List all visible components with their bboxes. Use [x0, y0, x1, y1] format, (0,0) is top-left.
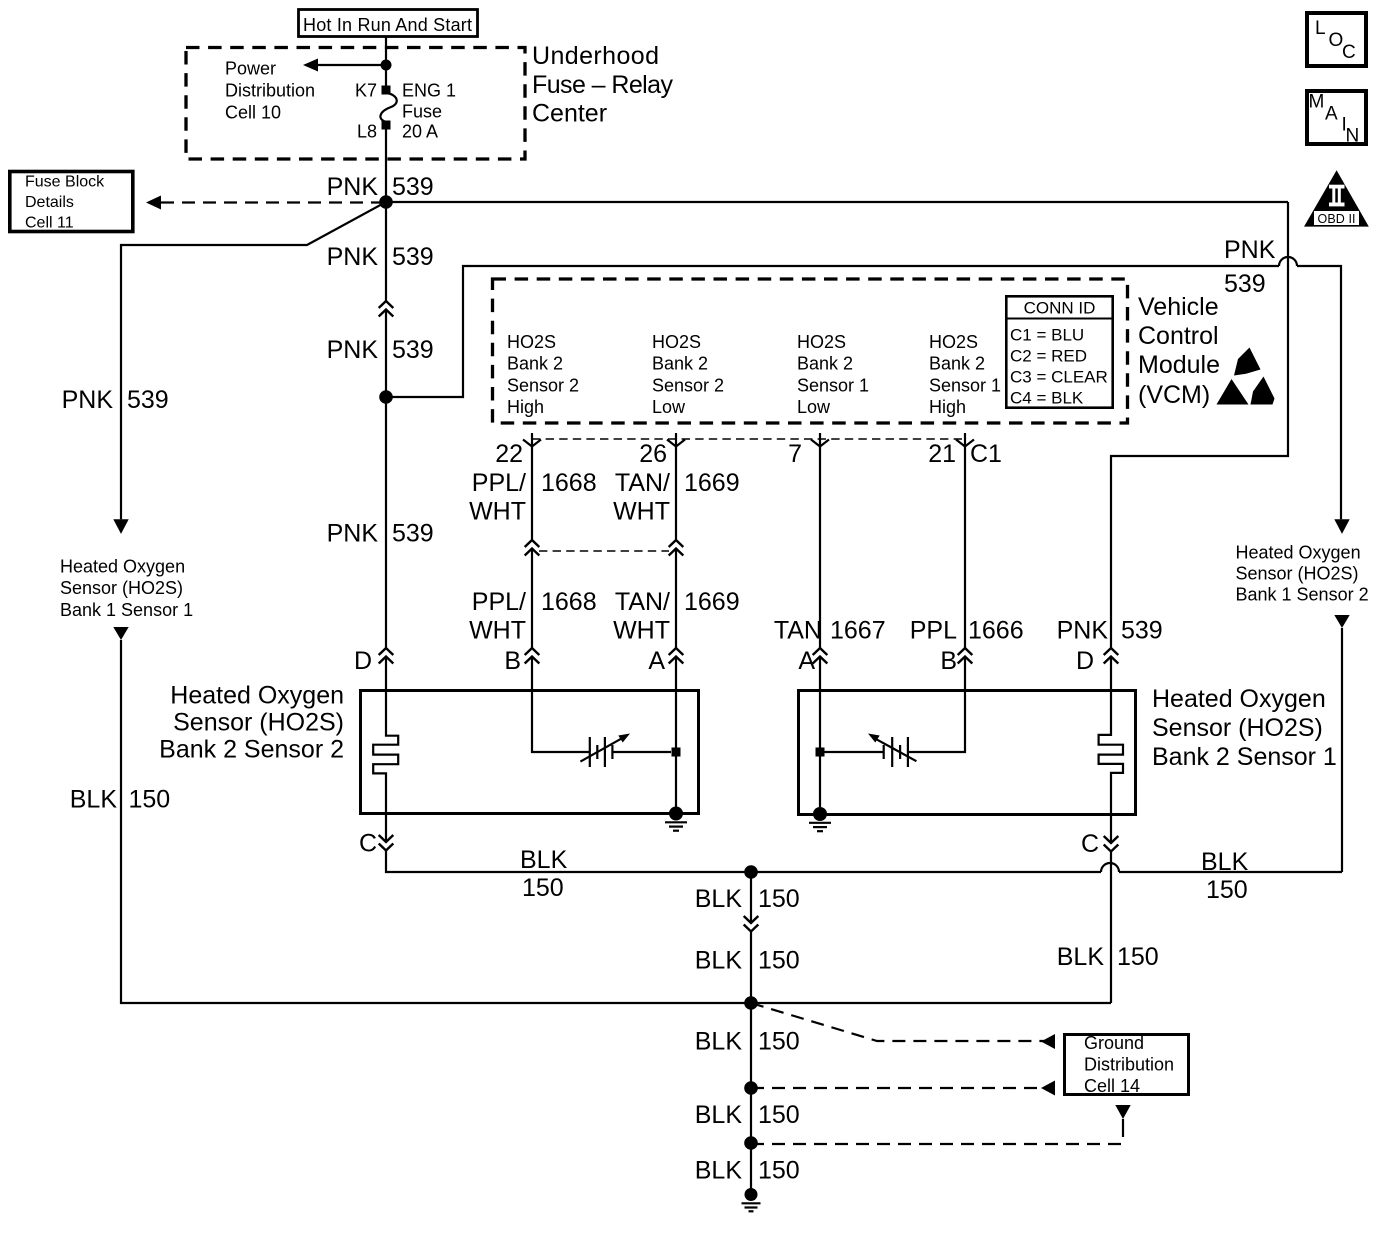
svg-text:1668: 1668 [541, 469, 597, 497]
svg-text:D: D [354, 647, 372, 675]
svg-text:539: 539 [392, 520, 434, 548]
svg-text:Fuse – Relay: Fuse – Relay [532, 71, 674, 99]
svg-text:WHT: WHT [613, 498, 670, 526]
svg-text:1668: 1668 [541, 588, 597, 616]
svg-text:Bank 2: Bank 2 [507, 354, 563, 374]
svg-text:ENG 1: ENG 1 [402, 81, 456, 101]
svg-text:C3 = CLEAR: C3 = CLEAR [1010, 368, 1108, 387]
svg-text:539: 539 [127, 386, 169, 414]
svg-text:WHT: WHT [613, 617, 670, 645]
svg-text:High: High [929, 397, 966, 417]
svg-text:HO2S: HO2S [797, 332, 846, 352]
svg-text:Heated Oxygen: Heated Oxygen [1152, 685, 1326, 713]
svg-text:539: 539 [392, 336, 434, 364]
svg-text:A: A [798, 647, 815, 675]
svg-text:PNK: PNK [327, 243, 379, 271]
svg-text:Bank 2: Bank 2 [652, 354, 708, 374]
svg-text:Module: Module [1138, 351, 1220, 379]
svg-text:PNK: PNK [327, 173, 379, 201]
svg-text:539: 539 [392, 243, 434, 271]
svg-text:Center: Center [532, 100, 607, 128]
svg-text:Low: Low [797, 397, 831, 417]
svg-text:20 A: 20 A [402, 122, 438, 142]
svg-text:L: L [1315, 18, 1326, 39]
svg-text:C: C [1081, 830, 1099, 858]
svg-text:PNK: PNK [62, 386, 114, 414]
svg-text:PNK: PNK [327, 336, 379, 364]
svg-text:Ground: Ground [1084, 1033, 1144, 1053]
svg-text:Distribution: Distribution [225, 81, 315, 101]
svg-text:150: 150 [758, 947, 800, 975]
svg-text:Bank 2: Bank 2 [929, 354, 985, 374]
svg-text:Sensor 1: Sensor 1 [929, 375, 1001, 395]
svg-text:21: 21 [928, 440, 956, 468]
svg-text:N: N [1346, 126, 1360, 147]
svg-text:Bank 1 Sensor 1: Bank 1 Sensor 1 [60, 600, 193, 620]
svg-text:BLK: BLK [695, 1101, 743, 1129]
svg-text:150: 150 [522, 874, 564, 902]
svg-text:C2 = RED: C2 = RED [1010, 347, 1087, 366]
svg-text:Sensor 2: Sensor 2 [652, 375, 724, 395]
svg-text:B: B [940, 647, 957, 675]
svg-text:Fuse: Fuse [402, 102, 442, 122]
svg-text:L8: L8 [357, 122, 377, 142]
svg-text:539: 539 [392, 173, 434, 201]
svg-text:BLK: BLK [695, 1028, 743, 1056]
svg-text:CONN ID: CONN ID [1024, 299, 1096, 318]
svg-text:TAN: TAN [774, 617, 822, 645]
svg-text:BLK: BLK [1057, 943, 1105, 971]
svg-text:Bank 2: Bank 2 [797, 354, 853, 374]
svg-text:1669: 1669 [684, 588, 740, 616]
svg-text:A: A [1325, 104, 1338, 125]
svg-text:Sensor (HO2S): Sensor (HO2S) [1152, 714, 1323, 742]
svg-text:TAN/: TAN/ [615, 588, 670, 616]
svg-text:OBD II: OBD II [1318, 212, 1356, 226]
svg-text:BLK: BLK [695, 947, 743, 975]
svg-text:26: 26 [639, 440, 667, 468]
svg-text:22: 22 [495, 440, 523, 468]
svg-text:C1 = BLU: C1 = BLU [1010, 326, 1084, 345]
svg-text:BLK: BLK [695, 885, 743, 913]
svg-text:PNK: PNK [1057, 617, 1109, 645]
svg-text:Bank 2 Sensor 2: Bank 2 Sensor 2 [159, 736, 344, 764]
svg-text:Distribution: Distribution [1084, 1055, 1174, 1075]
svg-text:Hot In Run And Start: Hot In Run And Start [303, 15, 472, 35]
svg-text:PPL: PPL [910, 617, 957, 645]
svg-text:Sensor (HO2S): Sensor (HO2S) [1236, 564, 1359, 584]
svg-text:539: 539 [1121, 617, 1163, 645]
svg-text:TAN/: TAN/ [615, 469, 670, 497]
svg-text:Sensor 2: Sensor 2 [507, 375, 579, 395]
svg-text:Vehicle: Vehicle [1138, 293, 1219, 321]
svg-text:B: B [504, 647, 521, 675]
svg-text:150: 150 [758, 1101, 800, 1129]
svg-text:BLK: BLK [695, 1157, 743, 1185]
svg-text:WHT: WHT [469, 617, 526, 645]
svg-text:C: C [359, 830, 377, 858]
svg-text:Heated Oxygen: Heated Oxygen [170, 682, 344, 710]
svg-text:A: A [648, 647, 665, 675]
svg-text:HO2S: HO2S [652, 332, 701, 352]
svg-text:Sensor (HO2S): Sensor (HO2S) [60, 578, 183, 598]
svg-text:150: 150 [758, 885, 800, 913]
svg-text:Underhood: Underhood [532, 42, 659, 70]
svg-text:Cell 14: Cell 14 [1084, 1076, 1140, 1096]
svg-text:PPL/: PPL/ [472, 469, 526, 497]
svg-text:K7: K7 [355, 81, 377, 101]
svg-text:Cell 10: Cell 10 [225, 103, 281, 123]
svg-text:Power: Power [225, 59, 276, 79]
svg-text:Cell 11: Cell 11 [25, 215, 74, 232]
svg-text:M: M [1309, 92, 1325, 113]
svg-text:1669: 1669 [684, 469, 740, 497]
svg-text:Sensor (HO2S): Sensor (HO2S) [173, 709, 344, 737]
svg-text:Bank 1 Sensor 2: Bank 1 Sensor 2 [1236, 585, 1369, 605]
svg-text:Details: Details [25, 194, 74, 211]
svg-text:1667: 1667 [830, 617, 886, 645]
svg-text:7: 7 [788, 440, 802, 468]
svg-text:BLK: BLK [520, 846, 568, 874]
svg-text:539: 539 [1224, 270, 1266, 298]
svg-text:150: 150 [129, 786, 171, 814]
svg-text:(VCM): (VCM) [1138, 381, 1210, 409]
svg-text:C: C [1342, 42, 1356, 63]
svg-text:BLK: BLK [1201, 848, 1249, 876]
svg-text:D: D [1076, 647, 1094, 675]
svg-text:PNK: PNK [1224, 236, 1276, 264]
svg-text:Heated Oxygen: Heated Oxygen [1236, 543, 1361, 563]
svg-text:1666: 1666 [968, 617, 1024, 645]
svg-text:Control: Control [1138, 322, 1219, 350]
svg-text:Heated Oxygen: Heated Oxygen [60, 557, 185, 577]
svg-text:HO2S: HO2S [507, 332, 556, 352]
svg-text:WHT: WHT [469, 498, 526, 526]
svg-text:HO2S: HO2S [929, 332, 978, 352]
svg-text:150: 150 [1117, 943, 1159, 971]
svg-text:Sensor 1: Sensor 1 [797, 375, 869, 395]
svg-text:150: 150 [758, 1157, 800, 1185]
svg-text:C1: C1 [970, 440, 1002, 468]
svg-text:Fuse Block: Fuse Block [25, 174, 105, 191]
svg-text:150: 150 [1206, 876, 1248, 904]
svg-text:High: High [507, 397, 544, 417]
svg-text:PPL/: PPL/ [472, 588, 526, 616]
svg-text:PNK: PNK [327, 520, 379, 548]
svg-text:150: 150 [758, 1028, 800, 1056]
svg-text:C4 = BLK: C4 = BLK [1010, 389, 1084, 408]
svg-text:BLK: BLK [70, 786, 118, 814]
svg-text:Low: Low [652, 397, 686, 417]
svg-text:Bank 2 Sensor 1: Bank 2 Sensor 1 [1152, 743, 1337, 771]
